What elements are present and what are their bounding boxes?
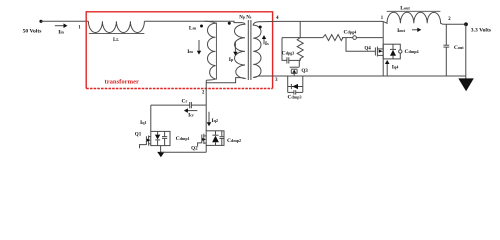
svg-text:Cdpg3: Cdpg3 [282,50,295,56]
svg-text:Iq2: Iq2 [211,118,218,124]
node 4 drop wire [299,21,301,37]
wire Lout to output [443,23,466,25]
transformer core [247,20,249,80]
node dot output [464,22,468,26]
svg-text:3.3 Volts: 3.3 Volts [471,28,492,34]
svg-text:Q4: Q4 [364,46,371,52]
svg-text:Iq4: Iq4 [392,65,399,71]
inductor Lm [205,21,216,80]
svg-text:3: 3 [275,78,278,83]
capacitor circle Cdpg4 [353,36,357,40]
resistor vertical [297,38,303,61]
wire top right rail [273,20,384,22]
arrow Im [198,40,200,52]
resistor horizontal [323,35,343,41]
svg-text:Iout: Iout [397,28,406,34]
ground output [458,78,474,91]
arrow Iout [412,29,419,31]
gate rail [282,37,323,39]
mosfet Q2 [198,143,202,147]
wire bottom rail [259,75,466,77]
node 2 vertical wire [205,83,207,131]
diode D4 [392,44,394,49]
capacitor Cr [189,102,191,108]
svg-text:Cdmp3: Cdmp3 [287,94,301,100]
ground wire Q1 [160,146,162,153]
svg-text:Np Ns: Np Ns [239,15,252,20]
transistor Q3 [290,66,300,68]
diode D1 [157,131,159,134]
svg-text:Q1: Q1 [135,131,142,137]
svg-text:Cdmp2: Cdmp2 [227,138,241,144]
mosfet Q1 [140,145,147,149]
svg-text:Icr: Icr [188,113,194,119]
arrow Is [263,38,265,45]
dot secondary [259,26,262,29]
svg-text:Is: Is [265,41,269,47]
snubber box Q4 [383,44,400,59]
node dot input [39,20,42,23]
svg-text:LL: LL [113,37,119,43]
snubber box Q2 [206,131,224,146]
svg-text:1: 1 [78,25,81,30]
dot Lm [200,25,203,28]
wire left vert [150,105,152,131]
wire Q2 source down [205,145,207,152]
snubber box Q1 [151,131,170,145]
arrow Iq2 [208,112,210,125]
transformer box [86,12,272,89]
arrow Iq4 [386,62,388,75]
wire secondary top to node 4 [259,21,273,23]
wire Lm bottom to primary [206,78,241,83]
svg-text:Im: Im [187,49,193,55]
wire Cdpg3 branch [282,38,287,61]
arrow Ip [234,42,236,54]
svg-text:Cout: Cout [454,45,464,51]
circle Cdmp4 [399,50,402,53]
arrow Icr [186,110,197,112]
wire input top [41,20,88,22]
wire top mid [144,21,241,22]
diode D2 [215,131,217,135]
inductor LL [88,21,144,32]
svg-text:Q2: Q2 [191,146,198,152]
gate wire Q4 [346,38,375,52]
transformer secondary winding [253,22,261,78]
wire resistor to Q3 [299,59,301,61]
svg-text:4: 4 [276,16,279,21]
svg-text:Lm: Lm [189,25,197,31]
inductor Lout [383,12,443,24]
wire output down [465,24,467,78]
svg-text:Cr: Cr [181,98,187,104]
svg-text:Iin: Iin [58,30,64,36]
transformer primary winding [235,23,245,79]
svg-text:Q3: Q3 [301,68,308,74]
svg-text:1: 1 [381,16,384,21]
svg-text:50 Volts: 50 Volts [23,28,43,34]
arrow Iin [55,25,65,27]
svg-text:Iq1: Iq1 [140,120,147,126]
svg-text:Cdmp1: Cdmp1 [176,136,190,142]
transistor Q4 group: main vertical [382,21,384,76]
svg-text:2: 2 [202,91,205,96]
svg-text:Ip: Ip [229,57,234,63]
capacitor Cdpg3 [286,57,288,63]
capacitor Cdmp1 [164,131,166,136]
dot primary [228,22,231,25]
snubber Cdmp3 [287,76,289,92]
svg-text:Lout: Lout [400,6,410,12]
mosfet Q4 [374,48,376,56]
wire Cr loop top [151,104,190,106]
wire bottom q1 q2 [161,151,206,153]
svg-text:Cdmp4: Cdmp4 [405,49,419,55]
capacitor Cout [445,24,447,45]
svg-text:2: 2 [448,17,451,22]
capacitor Cdmp2 [221,131,223,137]
ground arrow [157,152,164,157]
svg-text:transformer: transformer [105,79,139,86]
svg-text:Cdpg4: Cdpg4 [343,30,356,36]
